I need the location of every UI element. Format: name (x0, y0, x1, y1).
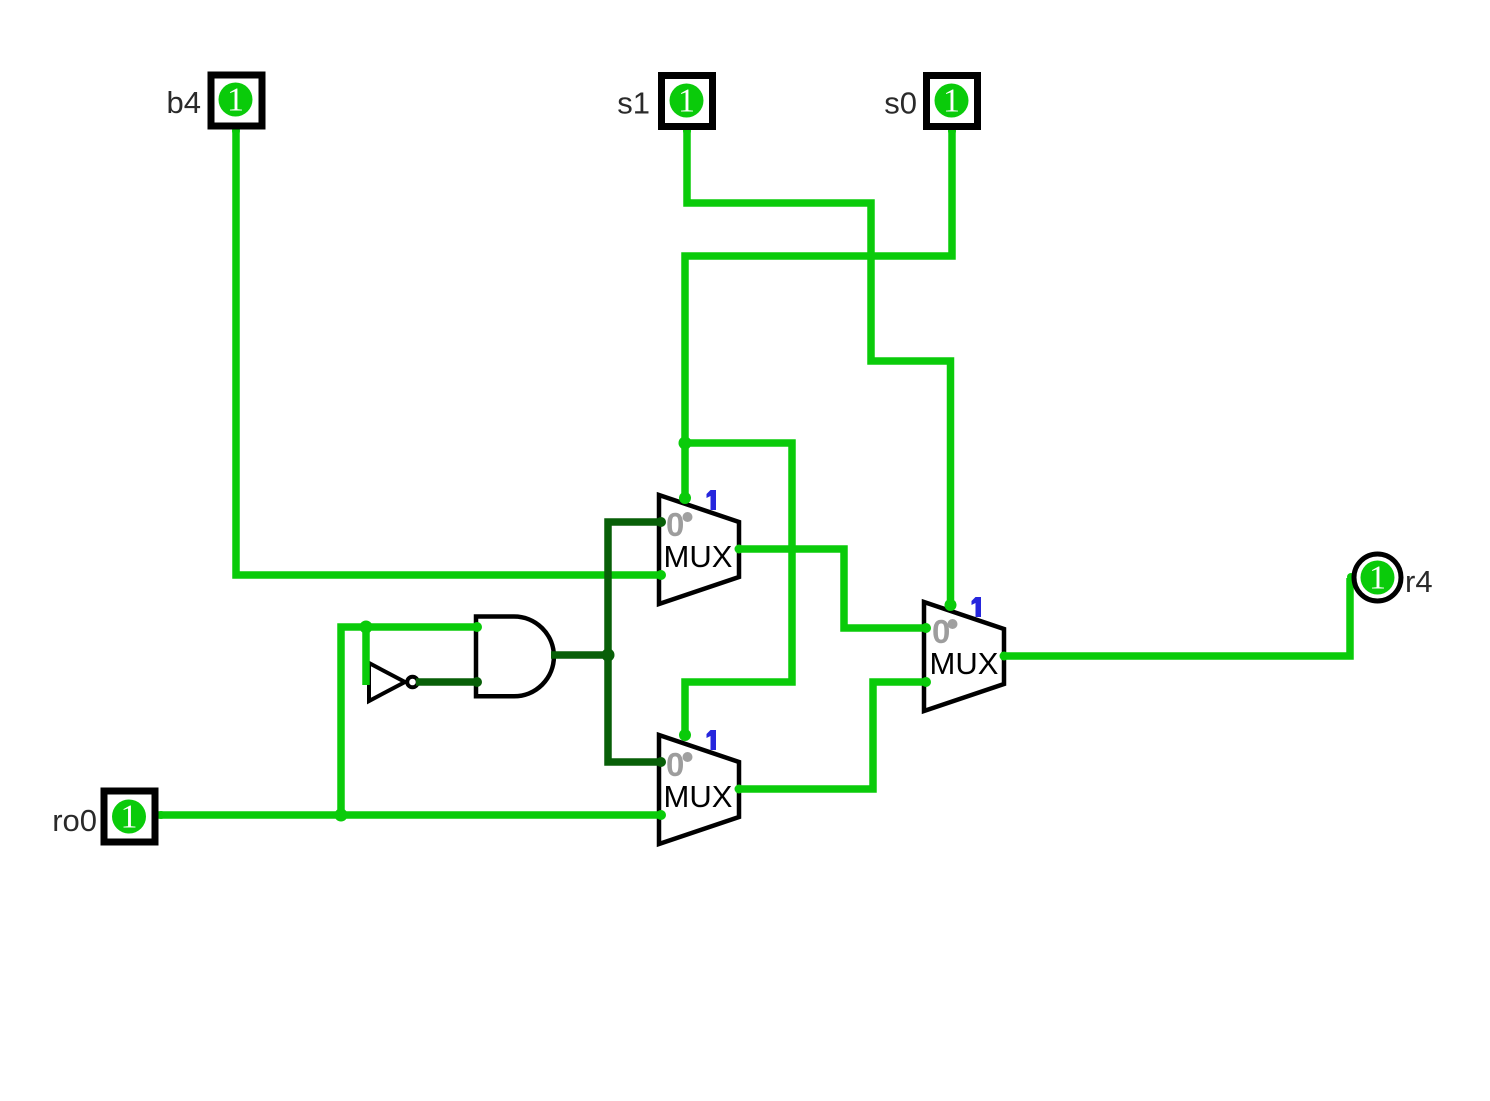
pin-end dot r4 (1347, 573, 1355, 581)
junction node D (and output) (602, 649, 615, 662)
mux U3 (right) body (924, 602, 1004, 711)
input nub U1 in0 (656, 517, 666, 527)
input pin b4 (167, 75, 262, 126)
svg-text:s1: s1 (617, 86, 650, 121)
wire b4 net (236, 129, 663, 575)
svg-text:b4: b4 (167, 85, 201, 120)
pin-end dot s1 (683, 127, 691, 135)
junction node B (335, 809, 348, 822)
select dot U2 (679, 729, 691, 741)
dot 0-label U2 (683, 752, 693, 762)
svg-text:1: 1 (121, 799, 138, 836)
input nub U3 in1 (921, 677, 931, 687)
and-gate U5 (476, 617, 554, 697)
svg-text:0: 0 (932, 613, 950, 650)
mux U1 (top) body (659, 495, 739, 604)
svg-text:1: 1 (943, 83, 960, 120)
wire ro0 net (158, 811, 662, 819)
svg-text:1: 1 (1369, 560, 1386, 597)
select value 1 U1 (707, 490, 717, 510)
wire s0 branch to lower mux select (685, 443, 792, 737)
input nub AND b (472, 677, 482, 687)
dot 0-label U3 (948, 619, 958, 629)
input nub U2 in1 (656, 810, 666, 820)
wire inverter output (416, 678, 479, 686)
output nub U1 (735, 545, 744, 554)
output pin r4 (1354, 554, 1433, 601)
wire s0 net (685, 129, 952, 499)
mux U2 (bottom) body (659, 735, 739, 844)
svg-text:r4: r4 (1405, 564, 1433, 599)
wire and output to mux 0-inputs (608, 522, 663, 762)
input nub U3 in0 (921, 623, 931, 633)
svg-text:MUX: MUX (664, 539, 733, 574)
svg-text:0: 0 (666, 506, 684, 543)
wire U3 output to r4 (1001, 578, 1350, 656)
select dot U3 (945, 599, 957, 611)
wire U1 output to U3 (737, 549, 927, 628)
pin-end dot s0 (948, 127, 956, 135)
input pin s1 (617, 76, 712, 127)
svg-text:s0: s0 (884, 86, 917, 121)
select value 1 U2 (707, 730, 717, 750)
junction node C (360, 621, 373, 634)
wire ro0 branch up (341, 627, 478, 815)
wire s1 net (687, 129, 951, 606)
wire to inverter input (362, 627, 370, 685)
wire and output (551, 651, 608, 659)
select value 1 U3 (972, 597, 982, 617)
svg-text:MUX: MUX (664, 779, 733, 814)
select dot U1 (679, 492, 691, 504)
svg-text:0: 0 (666, 746, 684, 783)
input pin ro0 (52, 791, 155, 842)
input nub AND a (472, 622, 482, 632)
svg-text:ro0: ro0 (52, 803, 97, 838)
output nub U3 (1000, 652, 1009, 661)
svg-text:MUX: MUX (930, 646, 999, 681)
input pin s0 (884, 76, 977, 127)
inverter U4 (369, 663, 418, 701)
input nub U2 in0 (656, 757, 666, 767)
pin-end dot ro0 (157, 811, 165, 819)
dot 0-label U1 (683, 512, 693, 522)
junction node A (679, 437, 692, 450)
wire U2 output to U3 (737, 682, 927, 789)
output nub U2 (735, 785, 744, 794)
svg-text:1: 1 (227, 82, 244, 119)
pin-end dot b4 (232, 127, 240, 135)
input nub U1 in1 (656, 570, 666, 580)
svg-text:1: 1 (678, 83, 695, 120)
